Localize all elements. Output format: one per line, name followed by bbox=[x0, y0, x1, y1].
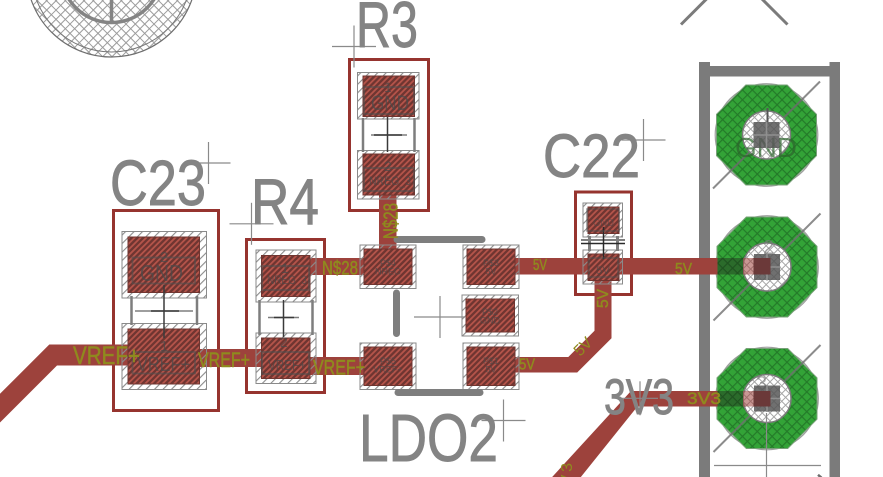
svg-text:5V: 5V bbox=[533, 255, 548, 273]
svg-text:VREF+: VREF+ bbox=[73, 341, 140, 369]
svg-text:5V: 5V bbox=[595, 289, 612, 308]
svg-text:LDO2: LDO2 bbox=[359, 400, 498, 475]
svg-text:NREG: NREG bbox=[375, 267, 401, 277]
svg-text:3V3: 3V3 bbox=[687, 389, 721, 408]
svg-text:NREG_3: NREG_3 bbox=[267, 274, 307, 287]
svg-text:VREF+: VREF+ bbox=[198, 348, 250, 372]
svg-text:GND: GND bbox=[593, 218, 614, 229]
svg-text:R4: R4 bbox=[251, 165, 319, 238]
svg-text:C23: C23 bbox=[110, 148, 206, 219]
svg-text:5V: 5V bbox=[519, 356, 535, 374]
svg-text:GND: GND bbox=[140, 260, 183, 286]
svg-text:VREF+: VREF+ bbox=[268, 357, 306, 374]
svg-text:N$28: N$28 bbox=[322, 257, 358, 279]
svg-text:VREF+: VREF+ bbox=[137, 352, 190, 375]
svg-text:3V3: 3V3 bbox=[604, 368, 674, 425]
svg-text:R3: R3 bbox=[356, 0, 418, 62]
svg-text:3V3: 3V3 bbox=[559, 463, 576, 477]
svg-text:5V: 5V bbox=[675, 260, 692, 278]
svg-text:GND: GND bbox=[371, 92, 409, 115]
svg-text:5V: 5V bbox=[485, 267, 496, 277]
svg-text:VREF+: VREF+ bbox=[313, 355, 365, 379]
svg-text:C22: C22 bbox=[543, 123, 640, 191]
svg-text:5V: 5V bbox=[596, 265, 611, 277]
svg-text:GND: GND bbox=[480, 316, 501, 326]
svg-text:5V: 5V bbox=[485, 365, 496, 375]
svg-text:N$28: N$28 bbox=[379, 203, 402, 239]
svg-text:VREF+: VREF+ bbox=[373, 365, 402, 375]
svg-text:2: 2 bbox=[384, 158, 392, 174]
svg-text:2: 2 bbox=[280, 334, 288, 350]
svg-text:NREG_3: NREG_3 bbox=[369, 175, 411, 188]
